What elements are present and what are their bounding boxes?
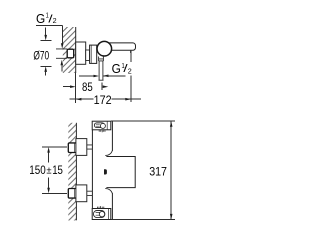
spout top fillet curl [105, 151, 112, 156]
svg-text:150: 150 [29, 163, 46, 177]
dimension 85: right arrow and extension stub [101, 83, 103, 91]
wall face line (side view) [75, 27, 77, 73]
bottom handle cap chamfer lines [108, 209, 110, 220]
top handle cap (plan view) [92, 121, 111, 130]
svg-text:172: 172 [94, 93, 112, 107]
top handle circle [100, 123, 105, 128]
spout block (plan view) [106, 157, 135, 188]
bottom union nut facet [74, 189, 76, 198]
leader of outlet G1/2: left arrow [79, 75, 94, 77]
svg-text:85: 85 [82, 80, 93, 94]
bottom scale ticks [97, 206, 103, 208]
top union nut facet [74, 143, 76, 152]
outlet pipe bottom cap [99, 79, 104, 81]
dimension 317: bottom extension line [111, 219, 175, 221]
handle arm (side view) [106, 43, 136, 50]
dimension 317: vertical line [170, 121, 172, 219]
bottom handle circle [99, 211, 104, 216]
top handle cap chamfer lines [106, 121, 108, 130]
dimension 150+-15: bottom arrow [48, 178, 50, 188]
dimension 172: left segment with outward arrow [69, 98, 93, 100]
bottom union escutcheon plate [76, 185, 87, 202]
escutcheon (side view) [76, 42, 86, 64]
bottom handle cap (plan view) [92, 209, 111, 220]
top handle capsule [94, 123, 104, 128]
thermostat body circle (side view) [97, 41, 112, 56]
dimension D70: top stub line [41, 40, 52, 42]
dimension 172: right extension line from handle end [130, 52, 132, 102]
arrow up to pipe bottom [61, 60, 64, 66]
neck between escutcheon and nut [86, 50, 90, 61]
dimension 150+-15: bottom extension line [42, 192, 67, 194]
body right edge (plan view) [111, 122, 113, 220]
svg-text:G: G [112, 62, 121, 76]
dimension 150+-15: top extension line [42, 146, 67, 148]
top union escutcheon plate [76, 139, 87, 156]
wall face extension line down to dimensions [75, 73, 77, 103]
wall hatch (side view) [63, 27, 76, 73]
svg-text:15: 15 [52, 163, 63, 177]
union nut facet line [90, 45, 92, 63]
leader drop line with arrow to pipe top [61, 25, 63, 43]
bottom union pipe stub [87, 191, 93, 195]
top union pipe stub [87, 145, 93, 149]
spout bottom fillet curl [105, 189, 112, 194]
dimension 317: bottom arrow [170, 214, 173, 220]
leader underline of G1/2 top [36, 24, 62, 26]
svg-text:317: 317 [149, 164, 167, 178]
dimension 150+-15: top arrow [47, 147, 50, 153]
bottom handle capsule [93, 211, 105, 218]
centre marker blob [104, 169, 107, 174]
svg-text:Ø70: Ø70 [33, 49, 49, 63]
svg-text:G: G [36, 12, 45, 26]
supply pipe in wall [56, 49, 67, 58]
svg-text:2: 2 [128, 66, 132, 75]
wall hatch (plan view) [68, 123, 76, 221]
wall socket (bold square) [67, 49, 74, 58]
top scale ticks [99, 130, 105, 132]
bottom handle grip lines [96, 212, 100, 215]
shower outlet pipe [99, 61, 103, 80]
top union nut (bold) [68, 143, 76, 153]
dimension D70: top arrow [45, 27, 47, 35]
wall face line (plan view) [75, 123, 77, 221]
outlet collar under body [99, 57, 104, 62]
dimension 317: top arrow [170, 121, 173, 127]
body left edge (plan view) [91, 130, 93, 209]
label G1/2 (top) [36, 12, 57, 26]
leader of outlet G1/2: right arrow with underline tail [103, 75, 109, 78]
svg-text:2: 2 [53, 16, 57, 25]
union nut (side view) [90, 45, 97, 63]
label G1/2 (outlet) [112, 62, 132, 76]
top handle grip lines [96, 124, 100, 126]
handle arm pointer tick [130, 51, 132, 53]
dimension 317: top extension line [111, 120, 175, 122]
bottom union nut (bold) [68, 189, 76, 199]
dimension D70: bottom stub line [41, 65, 52, 67]
dimension 172: right segment with outward arrow [112, 98, 141, 100]
dimension D70: bottom arrow [44, 66, 47, 72]
dimension 85: left line with arrow at wall [63, 86, 70, 88]
